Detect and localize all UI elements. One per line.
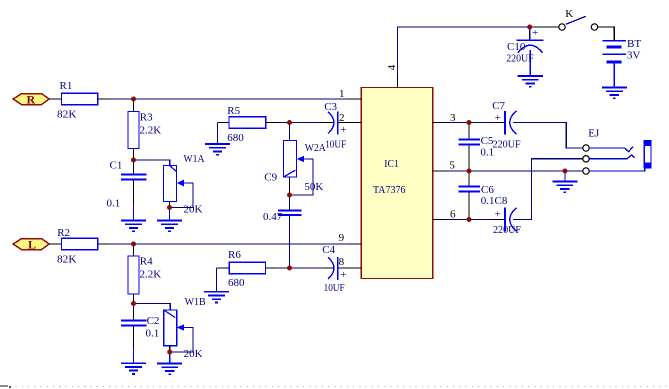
node R2/R4 junction junction dot — [131, 242, 136, 247]
wire R6 left to ground — [216, 268, 218, 291]
wire C8 to jack ring — [513, 159, 583, 220]
wire pin3 row — [446, 122, 495, 124]
svg-text:TA7376: TA7376 — [373, 184, 406, 196]
svg-text:W2A: W2A — [305, 142, 326, 154]
svg-text:6: 6 — [450, 208, 456, 220]
jack body — [644, 141, 651, 168]
svg-text:2.2K: 2.2K — [140, 125, 162, 137]
wire L row to IC pin9 — [109, 243, 349, 245]
svg-text:K: K — [565, 8, 573, 20]
svg-text:R2: R2 — [57, 227, 70, 239]
wire C7 to jack tip — [513, 123, 583, 149]
node R1/R3 junction junction dot — [131, 97, 136, 102]
resistor R4 — [128, 244, 161, 304]
jack terminal ring — [583, 156, 589, 162]
wire port L to R2 — [49, 243, 61, 245]
wire to ground — [169, 208, 171, 221]
svg-text:C10: C10 — [507, 41, 526, 53]
svg-text:8: 8 — [339, 256, 345, 268]
capacitor C4 — [322, 244, 349, 294]
wire W2A wiper loop to bottom — [290, 159, 314, 195]
svg-text:+: + — [340, 269, 346, 281]
svg-text:+: + — [532, 27, 538, 39]
capacitor C9 0.47 — [263, 195, 302, 223]
wire junction down to W2A — [289, 123, 291, 141]
ground under W1A — [157, 221, 182, 232]
svg-text:EJ: EJ — [588, 127, 600, 139]
pin 1 — [339, 88, 361, 100]
ground under C10 — [518, 76, 543, 87]
switch K — [533, 8, 598, 30]
svg-text:W1B: W1B — [185, 296, 206, 308]
ground under W1B — [157, 364, 182, 375]
wire R5 left to ground — [217, 123, 219, 144]
wire to ground — [169, 352, 171, 363]
wire junction to W1A — [134, 160, 170, 166]
svg-text:BT: BT — [627, 38, 641, 50]
svg-text:220UF: 220UF — [506, 52, 534, 64]
pin 5 — [433, 160, 456, 172]
svg-text:C7: C7 — [492, 100, 505, 112]
pin 6 — [433, 208, 456, 220]
svg-text:2: 2 — [339, 112, 345, 124]
svg-text:R6: R6 — [228, 249, 241, 261]
pin 3 — [433, 112, 456, 124]
svg-text:C4: C4 — [322, 244, 335, 256]
svg-text:+: + — [340, 124, 346, 136]
wire junction to W1B — [134, 304, 171, 311]
ground at EJ — [552, 182, 577, 193]
resistor R6 — [217, 249, 277, 289]
capacitor C8 — [493, 208, 521, 236]
svg-text:680: 680 — [227, 132, 244, 144]
capacitor C2 — [121, 304, 159, 363]
svg-text:+: + — [495, 209, 501, 221]
node pin6/C6 junction junction dot — [467, 217, 472, 222]
wire R5 to C3 — [278, 122, 323, 124]
capacitor C1 — [107, 160, 147, 220]
wire W1B bottom pin — [169, 346, 171, 352]
op-amp U1 IC1 TA7376 body — [361, 88, 432, 279]
capacitor C10 — [506, 27, 543, 76]
svg-text:0.1: 0.1 — [480, 147, 494, 159]
svg-text:1: 1 — [339, 88, 345, 100]
ground at R6 — [204, 292, 229, 303]
ground under battery — [602, 88, 627, 99]
svg-text:0.1C8: 0.1C8 — [481, 195, 508, 207]
node W1A bottom junction junction dot — [167, 205, 172, 210]
grid dot row (sheet edge) — [0, 385, 11, 388]
wire C9 down to pin8 row — [289, 216, 291, 268]
svg-text:220UF: 220UF — [493, 138, 521, 150]
wire W1B wiper to bottom — [170, 328, 193, 353]
capacitor C6 — [459, 171, 508, 220]
pin 2 — [339, 112, 361, 124]
svg-text:4: 4 — [386, 64, 398, 70]
svg-text:5: 5 — [449, 160, 455, 172]
resistor R3 — [128, 99, 161, 160]
wire R row to IC pin1 — [109, 98, 349, 100]
svg-text:L: L — [28, 238, 36, 252]
capacitor C3 — [323, 101, 350, 151]
svg-text:0.47: 0.47 — [263, 211, 283, 223]
ground under C1 — [121, 221, 146, 232]
svg-text:+: + — [495, 112, 501, 124]
node W2A bottom junction junction dot — [287, 193, 292, 198]
jack sleeve wire — [589, 168, 644, 171]
svg-text:220UF: 220UF — [493, 224, 521, 236]
svg-text:82K: 82K — [57, 109, 77, 121]
svg-text:C2: C2 — [147, 315, 160, 327]
svg-text:R3: R3 — [140, 112, 153, 124]
pin 8 — [339, 256, 362, 268]
wire W1A wiper to bottom — [170, 183, 194, 208]
svg-text:R1: R1 — [60, 80, 73, 92]
svg-text:10UF: 10UF — [324, 282, 345, 294]
node pin5 ground junction junction dot — [563, 169, 568, 174]
battery BT 3V — [603, 38, 642, 87]
wire W1A bottom pin — [169, 202, 171, 208]
svg-text:R5: R5 — [227, 105, 240, 117]
svg-text:C1: C1 — [110, 160, 123, 172]
capacitor C7 — [492, 100, 520, 151]
svg-text:0.1: 0.1 — [146, 327, 160, 339]
svg-text:W1A: W1A — [184, 153, 205, 165]
resistor R2 — [57, 227, 109, 265]
svg-text:R4: R4 — [140, 256, 153, 268]
resistor R5 — [218, 105, 278, 144]
node pin5/C5/C6 junction junction dot — [467, 169, 472, 174]
port R — [13, 93, 49, 107]
potentiometer W2A — [264, 141, 326, 194]
wire R6 to C4 — [276, 267, 322, 269]
jack tip contact — [589, 147, 633, 152]
svg-text:10UF: 10UF — [325, 138, 346, 150]
ground under C2 — [121, 363, 146, 374]
node pin3/C5 junction junction dot — [467, 120, 472, 125]
svg-text:680: 680 — [228, 277, 245, 289]
svg-text:2.2K: 2.2K — [140, 269, 162, 281]
svg-text:C9: C9 — [264, 171, 277, 183]
svg-text:0.1: 0.1 — [107, 198, 121, 210]
wire pin6 row — [446, 219, 495, 221]
svg-text:IC1: IC1 — [384, 158, 399, 170]
jack terminal tip — [583, 145, 589, 151]
jack terminal sleeve — [583, 168, 589, 174]
svg-text:9: 9 — [339, 232, 345, 244]
node W1B bottom junction junction dot — [167, 350, 172, 355]
pin 9 — [339, 232, 362, 244]
node R5/W2A/C3 junction junction dot — [287, 120, 292, 125]
potentiometer W1B — [164, 296, 206, 360]
wire pin5 row to jack sleeve — [446, 170, 583, 172]
node power rail / C10 junction junction dot — [527, 25, 532, 30]
wire to EJ ground — [564, 171, 566, 181]
wire pin4 to power rail — [398, 27, 534, 75]
pin 4 — [386, 64, 398, 87]
capacitor C5 — [459, 123, 494, 172]
potentiometer W1A — [164, 153, 205, 216]
ground at R5 — [205, 144, 230, 155]
svg-text:R: R — [27, 93, 36, 107]
svg-text:82K: 82K — [57, 254, 77, 266]
wire switch to battery — [598, 27, 615, 40]
svg-text:3V: 3V — [627, 50, 641, 62]
wire port R to R1 — [49, 98, 61, 100]
svg-text:C3: C3 — [324, 101, 337, 113]
svg-text:C5: C5 — [481, 135, 494, 147]
node R4/C2/W1B junction junction dot — [131, 301, 136, 306]
svg-text:50K: 50K — [304, 181, 323, 193]
port L — [13, 238, 49, 252]
jack ring contact — [589, 155, 634, 159]
node R6/C9/C4 junction junction dot — [287, 266, 292, 271]
node R3/C1/W1A junction junction dot — [131, 158, 136, 163]
wire W2A bottom pin — [289, 177, 291, 195]
resistor R1 — [57, 80, 109, 120]
